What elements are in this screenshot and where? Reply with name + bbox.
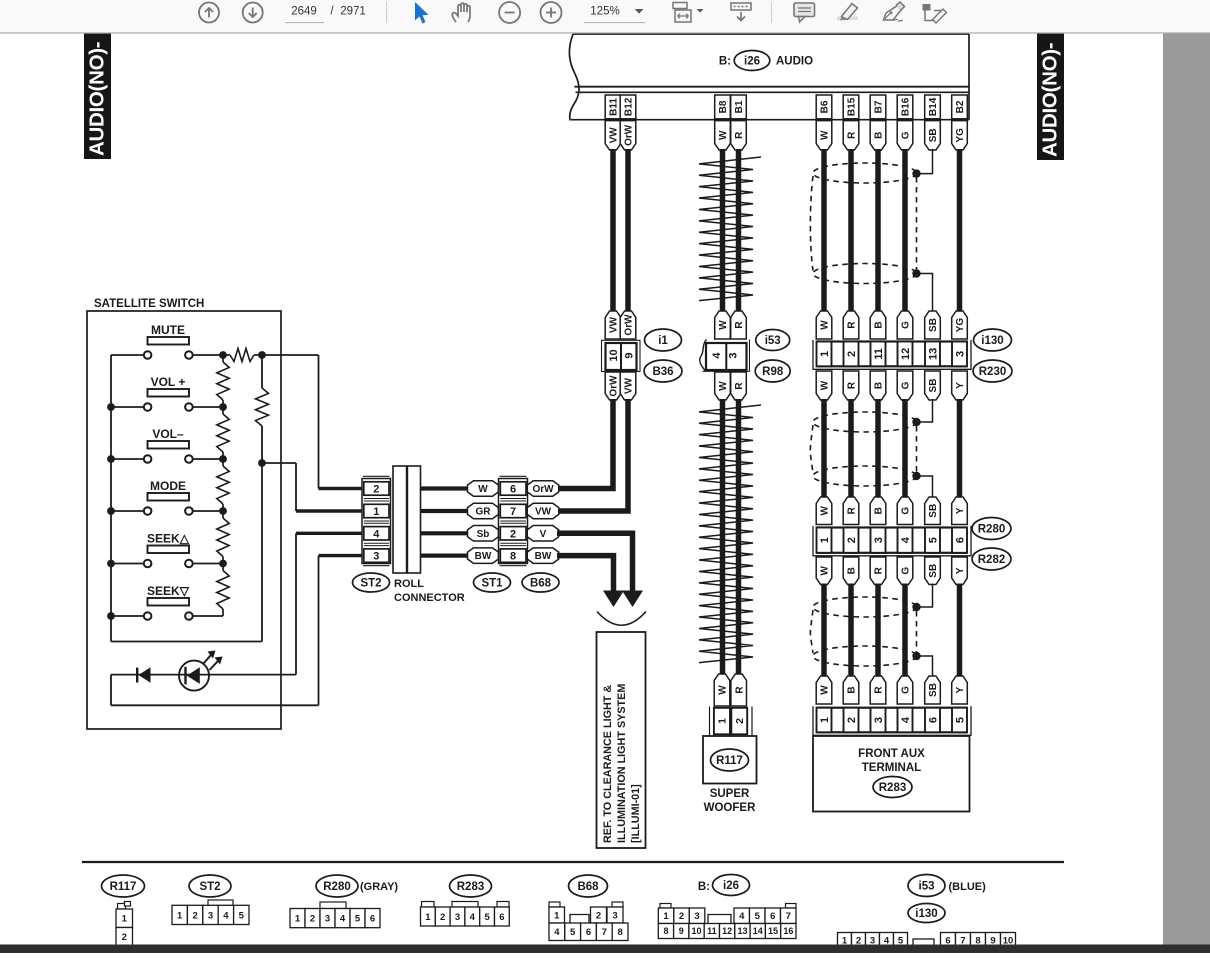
- wire stub to W tag: [421, 486, 469, 490]
- wire B (lower): [848, 584, 854, 677]
- svg-text:1: 1: [819, 351, 831, 357]
- wire color tag OrW at pin: [620, 121, 636, 150]
- svg-text:BW: BW: [475, 551, 492, 562]
- wire color tag G below R280: [897, 557, 913, 585]
- svg-text:SEEK△: SEEK△: [147, 532, 190, 546]
- arc under arrows: [597, 612, 646, 626]
- svg-text:B: B: [874, 382, 885, 389]
- wire color tag W below i130: [816, 371, 832, 400]
- svg-text:3: 3: [325, 914, 330, 925]
- junction dot left bus: [107, 612, 115, 620]
- svg-text:4: 4: [900, 716, 912, 723]
- wire color tag W below R280: [816, 557, 832, 585]
- svg-text:2: 2: [846, 717, 858, 723]
- svg-text:14: 14: [753, 926, 763, 936]
- svg-text:8: 8: [617, 927, 622, 938]
- wire color tag R above front aux: [870, 676, 886, 704]
- svg-text:B7: B7: [874, 100, 885, 113]
- connector label oval ST2: [353, 573, 390, 592]
- svg-text:1: 1: [663, 911, 669, 922]
- svg-text:B11: B11: [609, 98, 620, 116]
- svg-text:2: 2: [679, 911, 684, 922]
- svg-text:B68: B68: [577, 881, 599, 893]
- svg-text:SATELLITE SWITCH: SATELLITE SWITCH: [94, 298, 204, 310]
- svg-text:6: 6: [499, 912, 504, 923]
- svg-text:OrW: OrW: [624, 124, 635, 146]
- wire color tag W: [468, 481, 499, 497]
- svg-text:12: 12: [722, 926, 732, 936]
- svg-text:B: B: [847, 686, 858, 693]
- audio unit pin B6: [816, 95, 832, 119]
- svg-text:3: 3: [455, 912, 460, 923]
- legend B68 connector: [549, 902, 560, 907]
- svg-text:W: W: [820, 685, 831, 695]
- wire color tag Y above front aux: [952, 676, 968, 704]
- svg-text:R117: R117: [716, 755, 743, 767]
- illumination reference box: [597, 632, 646, 848]
- svg-text:2: 2: [373, 483, 379, 495]
- svg-text:2: 2: [596, 910, 601, 921]
- svg-text:VW: VW: [624, 377, 635, 394]
- wire YG (upper): [957, 149, 963, 312]
- wire color tag V right of B68: [527, 526, 559, 542]
- svg-text:2: 2: [734, 718, 746, 724]
- wire color tag YG at pin: [952, 121, 968, 150]
- svg-text:15: 15: [768, 926, 778, 936]
- svg-text:W: W: [718, 130, 729, 140]
- svg-text:8: 8: [663, 926, 668, 936]
- connector label oval B68: [522, 573, 559, 592]
- svg-text:i53: i53: [919, 881, 935, 893]
- legend ST2 connector: [208, 900, 233, 906]
- svg-text:R280: R280: [978, 524, 1006, 536]
- svg-text:Y: Y: [955, 382, 966, 389]
- front aux terminal box R283: [813, 736, 970, 812]
- svg-text:7: 7: [510, 506, 516, 518]
- svg-text:B68: B68: [530, 578, 552, 590]
- connector label oval B36: [644, 360, 682, 382]
- legend R280 connector: [320, 902, 346, 909]
- junction dot ladder 4: [219, 560, 227, 568]
- svg-text:V: V: [540, 529, 547, 540]
- resistor ladder segment 3: [222, 459, 224, 466]
- svg-text:MUTE: MUTE: [151, 323, 185, 337]
- resistor ladder segment 1: [222, 355, 224, 362]
- wire G (middle): [902, 399, 908, 498]
- svg-text:4: 4: [340, 914, 346, 925]
- audio unit pin B11: [605, 95, 621, 119]
- svg-text:MODE: MODE: [150, 479, 186, 493]
- svg-text:TERMINAL: TERMINAL: [862, 762, 921, 774]
- wire color tag Sb: [468, 526, 499, 542]
- svg-text:SB: SB: [928, 504, 939, 518]
- connector ST1/B68 pins 6,7,2,8: [500, 475, 527, 477]
- svg-text:8: 8: [510, 551, 516, 563]
- wire Y (lower): [957, 584, 963, 677]
- wire to ST2 pin 4: [295, 533, 297, 674]
- twisted pair marking upper: [699, 157, 761, 301]
- wire color tag BW right of B68: [527, 548, 559, 564]
- shield drain wire SB lower: [917, 584, 933, 608]
- svg-text:5: 5: [755, 911, 761, 922]
- svg-text:3: 3: [873, 717, 885, 723]
- svg-text:1: 1: [819, 717, 831, 723]
- svg-text:3: 3: [873, 537, 885, 543]
- svg-text:5: 5: [239, 910, 245, 921]
- svg-text:B:: B:: [698, 881, 710, 893]
- audio unit pin B16: [897, 95, 913, 119]
- svg-text:Sb: Sb: [477, 529, 490, 540]
- svg-text:5: 5: [355, 914, 361, 925]
- legend separator line: [82, 861, 1064, 863]
- svg-text:2971: 2971: [340, 6, 366, 18]
- svg-text:REF. TO CLEARANCE LIGHT &: REF. TO CLEARANCE LIGHT &: [602, 685, 614, 843]
- super woofer connector pins 1,2: [709, 707, 711, 737]
- wire color tag R at pin: [731, 121, 747, 150]
- connector label oval R230: [973, 360, 1012, 382]
- arrow V: [622, 591, 643, 608]
- legend R117 connector: [118, 904, 126, 910]
- svg-text:YG: YG: [955, 318, 966, 333]
- connector label oval i130: [974, 329, 1012, 351]
- svg-text:VOL–: VOL–: [152, 427, 184, 441]
- connector label oval i53: [756, 330, 790, 351]
- wire color tag W at pin: [715, 121, 731, 150]
- super woofer box R117: [703, 736, 757, 784]
- svg-text:R: R: [734, 686, 745, 694]
- svg-text:B2: B2: [955, 100, 966, 113]
- wire stub to BW tag: [421, 553, 469, 557]
- wire R (upper): [848, 149, 854, 312]
- svg-text:2: 2: [192, 910, 197, 921]
- wire VW from B11: [610, 149, 616, 312]
- svg-text:3: 3: [612, 910, 617, 921]
- wire color tag R below R280: [870, 557, 886, 585]
- wire R (lower): [875, 584, 881, 677]
- wire W (upper): [821, 149, 827, 312]
- svg-text:VW: VW: [535, 507, 552, 518]
- svg-text:AUDIO(NO)-: AUDIO(NO)-: [1039, 43, 1062, 157]
- svg-text:3: 3: [727, 352, 739, 358]
- svg-text:13: 13: [927, 348, 939, 360]
- svg-text:SUPER: SUPER: [710, 788, 750, 800]
- svg-text:1: 1: [122, 914, 128, 925]
- audio unit pin B7: [870, 95, 886, 119]
- svg-text:R: R: [734, 382, 745, 390]
- svg-text:ILLUMINATION LIGHT SYSTEM: ILLUMINATION LIGHT SYSTEM: [616, 684, 628, 843]
- svg-text:ROLL: ROLL: [394, 578, 424, 590]
- svg-text:6: 6: [370, 914, 375, 925]
- connector i53/R98 pins 4,3: [749, 340, 751, 372]
- svg-text:W: W: [718, 320, 729, 330]
- svg-text:5: 5: [570, 927, 576, 938]
- wire W from B8: [720, 149, 726, 312]
- svg-text:ST2: ST2: [199, 881, 220, 893]
- svg-text:6: 6: [927, 717, 939, 723]
- svg-text:VW: VW: [609, 316, 620, 333]
- audio unit pin B14: [925, 95, 941, 119]
- svg-text:125%: 125%: [590, 6, 619, 18]
- shield drain wire SB middle: [917, 399, 933, 422]
- wire color tag G above front aux: [897, 676, 913, 704]
- wire color tag B at pin: [870, 121, 886, 150]
- wire color tag SB below i130: [925, 371, 941, 400]
- svg-text:6: 6: [770, 911, 775, 922]
- wire stub to GR tag: [421, 509, 469, 513]
- resistor ladder segment 5: [222, 564, 224, 571]
- svg-text:11: 11: [707, 926, 717, 936]
- svg-text:W: W: [718, 685, 729, 695]
- audio unit pin B15: [843, 95, 859, 119]
- wire color tag SB above R280: [925, 497, 941, 525]
- svg-text:2: 2: [310, 914, 315, 925]
- svg-text:2649: 2649: [291, 6, 317, 18]
- wire OrW from B12: [625, 149, 631, 312]
- connector label oval R98: [755, 360, 790, 382]
- svg-text:R: R: [874, 566, 885, 574]
- wire W (lower): [821, 584, 827, 677]
- pdf viewer toolbar: [0, 0, 1210, 33]
- svg-text:R: R: [847, 131, 858, 139]
- svg-text:SEEK▽: SEEK▽: [147, 584, 190, 598]
- left bus wire: [110, 355, 112, 642]
- svg-text:B: B: [847, 567, 858, 574]
- svg-text:B16: B16: [901, 97, 912, 116]
- legend i26 oval: [713, 875, 750, 896]
- wire color tag R at pin: [843, 121, 859, 150]
- wire color tag B below i130: [870, 371, 886, 400]
- wire color tag R below i53: [731, 372, 747, 400]
- svg-text:G: G: [901, 131, 912, 139]
- wire OrW from B36 to B68 pin6: [557, 399, 613, 489]
- svg-text:YG: YG: [955, 128, 966, 143]
- svg-text:W: W: [820, 380, 831, 390]
- resistor ladder top junction: [219, 351, 227, 359]
- legend i26 connector: [660, 904, 671, 909]
- svg-text:B: B: [874, 321, 885, 328]
- svg-text:W: W: [718, 381, 729, 391]
- svg-text:R283: R283: [457, 881, 485, 893]
- resistor column 2: [256, 388, 269, 426]
- svg-text:2: 2: [846, 351, 858, 357]
- left page tab AUDIO(NO): [84, 33, 111, 159]
- junction dot left bus: [107, 455, 115, 463]
- wire to ST2 pin 3: [318, 556, 320, 706]
- svg-text:R280: R280: [323, 881, 351, 893]
- front aux terminal pin strip: [812, 706, 814, 736]
- svg-text:B1: B1: [734, 100, 745, 113]
- resistor ladder segment 4: [222, 511, 224, 518]
- svg-text:2: 2: [440, 912, 445, 923]
- svg-text:i1: i1: [658, 335, 668, 347]
- connector R280/R282 pins: [812, 526, 814, 556]
- wire color tag W at super woofer: [714, 674, 730, 706]
- svg-text:R282: R282: [978, 554, 1006, 566]
- wire color tag R above i53: [731, 311, 747, 339]
- svg-text:9: 9: [624, 352, 636, 358]
- svg-text:10: 10: [608, 349, 620, 361]
- wire color tag R above i130: [843, 311, 859, 339]
- wire V to illumination: [557, 533, 633, 592]
- wire stub to Sb tag: [421, 531, 469, 535]
- svg-text:OrW: OrW: [624, 314, 635, 336]
- wire color tag OrW above i1: [620, 311, 636, 339]
- svg-text:B: B: [874, 507, 885, 514]
- svg-text:BW: BW: [535, 551, 552, 562]
- audio unit pin B8: [715, 95, 731, 119]
- svg-text:Y: Y: [955, 567, 966, 574]
- audio unit box B:i26 AUDIO: [569, 34, 579, 121]
- wire color tag W above i53: [715, 311, 731, 339]
- wire color tag G at pin: [897, 121, 913, 150]
- svg-text:4: 4: [373, 528, 380, 540]
- roll connector bars: [393, 466, 407, 573]
- svg-text:6: 6: [954, 537, 966, 543]
- svg-text:9: 9: [679, 926, 684, 936]
- twisted pair marking lower: [699, 405, 761, 663]
- wire LED branch: [111, 674, 296, 676]
- wire color tag W above R280: [816, 497, 832, 525]
- junction dot left bus: [107, 507, 115, 515]
- svg-text:1: 1: [717, 718, 729, 724]
- shield drain wire SB upper: [917, 149, 933, 174]
- svg-text:G: G: [901, 686, 912, 694]
- svg-text:R283: R283: [879, 782, 907, 794]
- wire color tag GR: [468, 503, 499, 519]
- wire color tag B above front aux: [843, 676, 859, 704]
- wire color tag Y below i130: [952, 371, 968, 400]
- wire color tag SB below R280: [925, 557, 941, 585]
- LED D2: [179, 661, 209, 691]
- junction dot ladder 2: [219, 455, 227, 463]
- svg-text:4: 4: [554, 927, 560, 938]
- svg-text:VOL +: VOL +: [151, 375, 186, 389]
- svg-text:R: R: [734, 321, 745, 329]
- wire G (lower): [902, 584, 908, 677]
- svg-text:Y: Y: [955, 686, 966, 693]
- svg-text:7: 7: [786, 911, 791, 922]
- svg-text:5: 5: [484, 912, 490, 923]
- connector label oval R280: [972, 518, 1011, 540]
- legend R280 oval: [316, 875, 358, 897]
- svg-text:1: 1: [177, 910, 183, 921]
- svg-text:Y: Y: [955, 507, 966, 514]
- svg-text:B:: B:: [719, 56, 731, 68]
- svg-text:G: G: [901, 507, 912, 515]
- svg-text:1: 1: [295, 914, 301, 925]
- connector label oval ST1: [474, 573, 511, 592]
- junction dot col2 top: [258, 351, 266, 359]
- wire color tag Y above R280: [952, 497, 968, 525]
- wire color tag W above i130: [816, 311, 832, 339]
- connector ST2 pins 2,1,4,3: [363, 475, 390, 477]
- junction dot ladder 3: [219, 507, 227, 515]
- connector label oval i1: [645, 329, 682, 351]
- svg-text:R117: R117: [110, 881, 137, 893]
- svg-text:7: 7: [602, 927, 607, 938]
- wire Y (middle): [957, 399, 963, 498]
- wire to ST2 pin 1: [262, 462, 296, 464]
- svg-text:i26: i26: [744, 56, 760, 68]
- svg-text:4: 4: [711, 352, 723, 359]
- diode D1: [136, 668, 138, 683]
- bottom dark bar: [0, 945, 1210, 954]
- shield (lower section): [813, 597, 917, 617]
- svg-text:1: 1: [425, 912, 431, 923]
- right column wire: [261, 355, 263, 388]
- svg-text:13: 13: [737, 926, 747, 936]
- svg-text:B36: B36: [652, 366, 673, 378]
- svg-text:i130: i130: [981, 335, 1003, 347]
- svg-text:W: W: [820, 565, 831, 575]
- wire color tag R below i130: [843, 371, 859, 400]
- wire G (upper): [902, 149, 908, 312]
- svg-text:AUDIO(NO)-: AUDIO(NO)-: [86, 42, 109, 156]
- svg-text:R98: R98: [762, 366, 784, 378]
- svg-text:ST2: ST2: [360, 578, 381, 590]
- svg-text:SB: SB: [928, 128, 939, 142]
- svg-text:12: 12: [900, 348, 912, 360]
- svg-text:B6: B6: [820, 100, 831, 113]
- svg-text:R230: R230: [979, 366, 1007, 378]
- connector i1/B36 pins 10,9: [602, 340, 641, 371]
- svg-text:G: G: [901, 381, 912, 389]
- wire color tag YG above i130: [952, 311, 968, 339]
- legend i130 connector: [838, 933, 852, 948]
- svg-text:[ILLUMI-01]: [ILLUMI-01]: [630, 784, 642, 843]
- wire B (upper): [875, 149, 881, 312]
- junction dot col2 mid: [258, 459, 266, 467]
- connector label oval R282: [972, 548, 1011, 570]
- svg-text:R: R: [847, 381, 858, 389]
- wire color tag W at pin: [816, 121, 832, 150]
- wire color tag B above R280: [870, 497, 886, 525]
- svg-text:B8: B8: [718, 100, 729, 113]
- svg-text:W: W: [478, 484, 488, 495]
- wire BW to illumination: [557, 556, 614, 592]
- wire color tag VW above i1: [605, 311, 621, 339]
- svg-text:10: 10: [692, 926, 702, 936]
- svg-text:OrW: OrW: [609, 375, 620, 397]
- shield (upper section): [813, 163, 917, 183]
- wire to ST2 pin 2: [262, 354, 319, 356]
- wire R (middle): [848, 399, 854, 498]
- wire R from B1: [736, 149, 742, 312]
- svg-text:1: 1: [373, 506, 379, 518]
- wire color tag R at super woofer: [731, 674, 747, 706]
- wire color tag Y below R280: [952, 557, 968, 585]
- svg-text:3: 3: [954, 351, 966, 357]
- svg-text:R: R: [734, 131, 745, 139]
- svg-text:3: 3: [694, 911, 699, 922]
- wire color tag OrW below i1: [605, 372, 621, 400]
- svg-text:GR: GR: [476, 507, 492, 518]
- resistor horizontal R-top: [223, 354, 230, 356]
- svg-text:R: R: [874, 686, 885, 694]
- svg-text:SB: SB: [928, 379, 939, 393]
- svg-text:3: 3: [208, 910, 213, 921]
- svg-text:6: 6: [510, 483, 516, 495]
- satellite switch box: [87, 311, 281, 729]
- wire color tag G below i130: [897, 371, 913, 400]
- arrow BW: [603, 591, 624, 608]
- wire color tag B below R280: [843, 557, 859, 585]
- svg-text:SB: SB: [928, 318, 939, 332]
- wire color tag BW: [468, 548, 499, 564]
- legend R283 connector: [422, 902, 435, 908]
- svg-text:R: R: [847, 321, 858, 329]
- svg-text:i26: i26: [723, 880, 739, 892]
